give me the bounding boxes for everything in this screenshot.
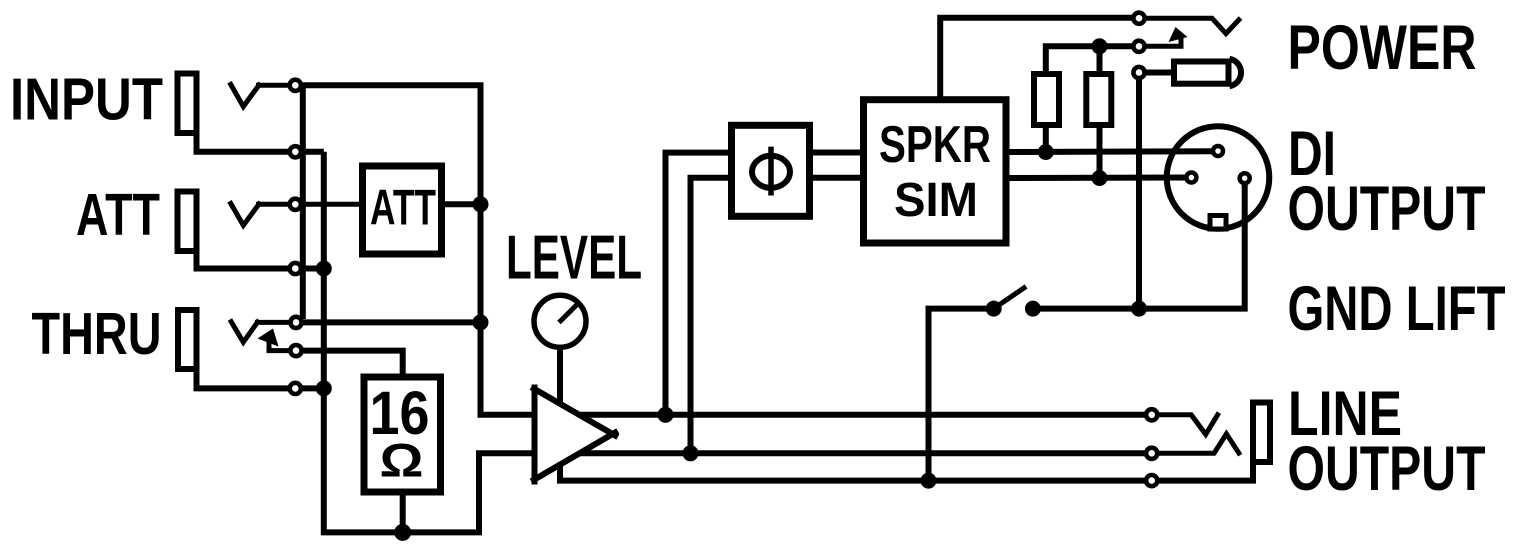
node J4 tip terminal (1146, 409, 1157, 420)
jack J4 ring contact (1157, 434, 1240, 455)
junction dot R2 to cold line (1092, 170, 1108, 186)
resistor R1 body (1034, 74, 1059, 125)
junction dot THRU tip on bus C (473, 314, 489, 330)
node XLR pin 1 (1240, 173, 1250, 183)
DC power plug tip arc (1230, 59, 1242, 86)
wire hot line to pin 2 (1006, 148, 1218, 155)
wire amp hot output line (579, 412, 1152, 418)
jack J4 LINE OUTPUT tip contact (1157, 413, 1219, 435)
XLR connector DI output body (1167, 126, 1270, 229)
wire phase riser 1 (666, 153, 729, 415)
wire level pot to ground line (560, 347, 1253, 480)
junction dot ATT output on bus C (473, 196, 489, 212)
wire spkr sim power lead (940, 18, 1132, 100)
resistor R2 body (1086, 74, 1111, 125)
wire amp cold output line (580, 450, 1152, 456)
wire 16 ohm bottom lead (400, 492, 406, 532)
wire sleeve bus B vertical (324, 152, 535, 533)
wire ATT output to bus C (442, 201, 481, 207)
wire tip bus A vertical (300, 85, 306, 319)
jack J3 THRU sleeve body (178, 310, 197, 369)
contact gnd lift right dot (1025, 301, 1041, 317)
phase box PHI (732, 125, 810, 216)
wire ground bus from DC jack (1136, 78, 1142, 309)
junction dot J2 sleeve to bus B (316, 261, 332, 277)
svg-text:OUTPUT: OUTPUT (1288, 434, 1486, 504)
svg-text:SPKR: SPKR (879, 116, 991, 174)
svg-text:SIM: SIM (894, 173, 978, 227)
arrow power switch direction (1169, 27, 1188, 42)
contact J1 tip spring (230, 82, 261, 106)
node J3 switch terminal (290, 345, 301, 356)
op-amp U1 amplifier triangle (531, 385, 618, 485)
junction dot resistor rail (1092, 38, 1108, 54)
wire THRU tip to bus C (295, 319, 481, 325)
node J2 tip terminal (290, 199, 301, 210)
junction dot J3 sleeve to bus B (316, 380, 332, 396)
wire DC jack lead (1146, 70, 1174, 76)
attenuator box ATT (363, 166, 442, 254)
node XLR pin 2 (1213, 146, 1223, 156)
wire R2 top lead (1097, 46, 1103, 74)
node power switch terminal 1 (1133, 13, 1144, 24)
phase symbol ring (752, 156, 790, 188)
contact J3 tip spring (230, 320, 259, 343)
wire cold line to pin 3 (1006, 175, 1191, 182)
svg-text:THRU: THRU (32, 300, 162, 367)
node XLR pin 3 (1186, 173, 1196, 183)
arrow J3 switch direction (258, 329, 279, 347)
svg-text:ATT: ATT (76, 181, 160, 248)
node J3 tip terminal (290, 317, 301, 328)
wire J2 sleeve lead (197, 251, 324, 269)
wire power arrow lead (1146, 38, 1181, 46)
node J1 sleeve terminal (290, 146, 301, 157)
potentiometer wiper mark (559, 303, 579, 323)
resistor dummy load 16 ohm box (364, 377, 441, 492)
node J4 ring terminal (1146, 448, 1157, 459)
potentiometer LEVEL body (534, 295, 586, 347)
jack J1 INPUT sleeve body (178, 74, 197, 134)
wire R2 bottom lead (1097, 125, 1103, 178)
junction dot cold output to phase riser (683, 445, 699, 461)
wire gnd lift left lead (929, 309, 994, 481)
svg-text:GND LIFT: GND LIFT (1288, 274, 1506, 344)
node J1 tip terminal (290, 80, 301, 91)
svg-text:INPUT: INPUT (10, 66, 163, 133)
wire J3 sleeve lead (197, 369, 324, 388)
jack J2 ATT sleeve body (178, 192, 197, 252)
wire phase to spkr lower (810, 175, 864, 181)
wire phase riser 2 (691, 178, 729, 454)
contact J2 tip spring (230, 201, 261, 225)
junction dot gnd lift to ground line (921, 473, 937, 489)
wire phase to spkr upper (810, 150, 864, 156)
wire J3 tip to node (255, 320, 295, 325)
svg-text:Ω: Ω (380, 434, 424, 487)
jack J4 sleeve body (1253, 403, 1270, 463)
wire J2 tip to ATT box (256, 202, 359, 207)
svg-text:LEVEL: LEVEL (506, 223, 642, 293)
XLR latch notch (1210, 216, 1226, 230)
junction dot power bus to gnd lift (1131, 301, 1147, 317)
wire R1 bottom lead (1043, 125, 1049, 152)
wire J1 tip to node (256, 83, 295, 88)
contact gnd lift left dot (986, 301, 1002, 317)
wire J3 switch contact lead (269, 339, 296, 351)
node J4 sleeve terminal (1146, 475, 1157, 486)
junction dot hot output to phase riser (658, 407, 674, 423)
phase symbol bar (768, 147, 774, 196)
wire THRU switch to dummy load (301, 351, 403, 374)
node DC jack terminal 3 (1133, 67, 1144, 78)
wire pin 1 to gnd lift (1037, 178, 1245, 308)
wire resistor rail (1046, 46, 1132, 71)
svg-text:OUTPUT: OUTPUT (1288, 174, 1486, 244)
junction dot 16 ohm to ground bus (394, 524, 411, 541)
contact power switch blade (1146, 18, 1241, 34)
wire input tip rail to bus C (295, 85, 535, 415)
DC power plug barrel (1174, 62, 1229, 84)
svg-text:ATT: ATT (370, 180, 436, 236)
speaker simulator box SPKR SIM (864, 100, 1007, 243)
wire J1 sleeve lead (197, 133, 324, 152)
node power switch terminal 2 (1133, 41, 1144, 52)
node J2 sleeve terminal (290, 263, 301, 274)
node J3 sleeve terminal (290, 383, 301, 394)
junction dot R1 to hot line (1038, 144, 1054, 160)
switch GND LIFT blade (994, 287, 1026, 309)
svg-text:POWER: POWER (1288, 13, 1477, 83)
